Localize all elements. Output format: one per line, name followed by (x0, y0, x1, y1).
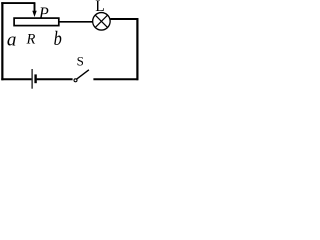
svg-text:P: P (38, 5, 49, 22)
svg-text:S: S (77, 54, 84, 69)
svg-text:b: b (54, 27, 62, 49)
svg-text:R: R (26, 31, 36, 47)
svg-text:a: a (7, 30, 17, 51)
svg-text:L: L (95, 0, 104, 15)
